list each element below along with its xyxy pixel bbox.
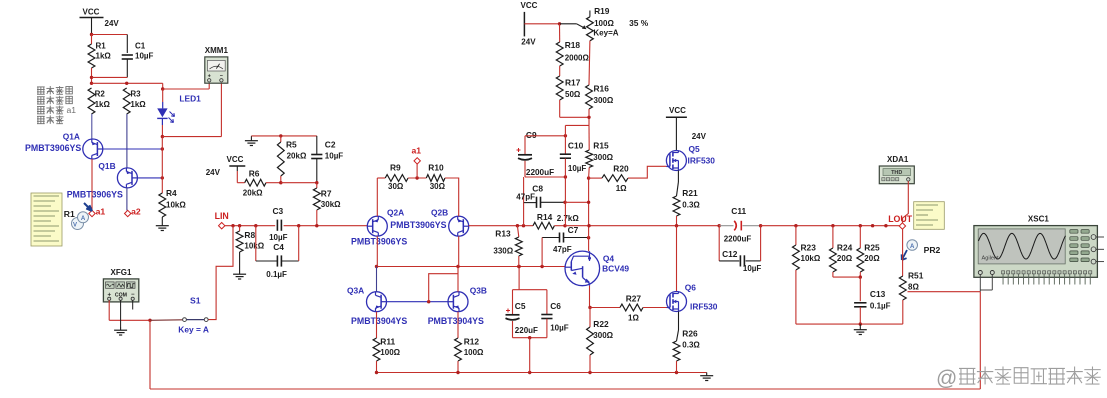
transistor Q3B PMBT3904YS	[448, 292, 468, 312]
probe PR2 indicator	[907, 240, 918, 251]
svg-text:24V: 24V	[521, 38, 536, 47]
wire Q2B base to feedback rail	[469, 225, 533, 227]
resistor R27 1Ω (gate stopper)	[590, 307, 621, 309]
wire XSC1 ground return column	[979, 292, 981, 389]
LED LED1	[162, 89, 164, 102]
svg-text:THD: THD	[891, 170, 902, 176]
svg-text:R19: R19	[594, 6, 610, 16]
wire Q6 source to R26	[678, 312, 680, 331]
wire XFG1 COM to ground	[120, 300, 122, 327]
svg-text:XDA1: XDA1	[887, 155, 909, 164]
svg-text:2200uF: 2200uF	[526, 168, 554, 177]
wire C5/C6 loop feed	[518, 267, 520, 290]
resistor R6 20kΩ (horizontal)	[237, 182, 244, 184]
svg-text:XSC1: XSC1	[1028, 214, 1049, 223]
svg-text:XFG1: XFG1	[111, 268, 132, 277]
wire R1 top lead	[91, 35, 93, 45]
svg-text:PMBT3904YS: PMBT3904YS	[428, 316, 484, 326]
svg-text:a2: a2	[131, 207, 141, 217]
wire Q4 emitter down	[589, 286, 591, 308]
svg-text:0.3Ω: 0.3Ω	[682, 340, 700, 349]
svg-text:10µF: 10µF	[269, 233, 288, 242]
svg-text:47pF: 47pF	[516, 193, 535, 202]
resistor R13 330Ω	[517, 226, 518, 237]
wire LED column drop	[162, 83, 164, 89]
wire XDA1 to LOUT	[903, 181, 909, 223]
svg-text:10µF: 10µF	[550, 324, 569, 333]
resistor R16 300Ω	[586, 85, 593, 109]
resistor R20 1Ω (gate stopper)	[589, 177, 602, 179]
resistor R12 100Ω	[457, 312, 459, 338]
resistor R21 0.3Ω	[673, 196, 680, 216]
wire C9 bottom node	[525, 176, 565, 178]
transistor Q4 BCV49 (darlington)	[565, 251, 600, 286]
wire LOUT down to R51	[902, 229, 904, 276]
svg-text:10µF: 10µF	[325, 152, 344, 161]
resistor R23 10kΩ	[795, 226, 797, 245]
svg-text:R26: R26	[682, 328, 698, 338]
svg-text:1kΩ: 1kΩ	[95, 100, 111, 109]
svg-text:R24: R24	[837, 243, 853, 253]
capacitor C2 10µF	[316, 136, 318, 154]
transistor Q2B PMBT3906YS	[449, 216, 469, 236]
svg-text:R51: R51	[908, 271, 924, 281]
svg-text:10kΩ: 10kΩ	[166, 201, 186, 210]
transistor Q2A PMBT3906YS	[367, 216, 387, 236]
resistor R1 1kΩ	[88, 44, 95, 68]
wire R10 to Q2B emitter	[445, 178, 459, 216]
svg-text:R21: R21	[682, 188, 698, 198]
wire Q1A base to bias column	[103, 148, 163, 150]
svg-text:LIN: LIN	[215, 211, 229, 221]
svg-text:2.7kΩ: 2.7kΩ	[557, 214, 580, 223]
svg-text:Q2A: Q2A	[387, 207, 404, 217]
svg-text:C12: C12	[722, 249, 738, 259]
wire VCC stem to R6	[236, 171, 238, 183]
svg-text:Q4: Q4	[603, 254, 615, 264]
svg-text:30kΩ: 30kΩ	[321, 200, 341, 209]
svg-text:IRF530: IRF530	[690, 302, 718, 312]
svg-text:Q1B: Q1B	[98, 161, 115, 171]
resistor R22 300Ω	[589, 308, 591, 328]
wire R1/C1 bottom link	[90, 76, 93, 79]
wire XFG1 + output	[108, 300, 110, 320]
wire R9-R10 mid node	[408, 177, 426, 179]
wire output rail	[565, 225, 719, 227]
svg-text:PMBT3906YS: PMBT3906YS	[25, 143, 81, 153]
svg-text:20kΩ: 20kΩ	[243, 188, 263, 197]
MOSFET Q6 IRF530	[667, 292, 687, 312]
wire Q2B collector down	[458, 236, 460, 266]
svg-text:Q3B: Q3B	[470, 285, 487, 295]
svg-text:R11: R11	[380, 337, 395, 347]
svg-text:10kΩ: 10kΩ	[244, 241, 264, 250]
svg-text:C6: C6	[550, 301, 561, 311]
svg-text:PMBT3906YS: PMBT3906YS	[390, 220, 446, 230]
svg-text:C11: C11	[731, 206, 746, 216]
svg-text:PMBT3906YS: PMBT3906YS	[67, 190, 123, 200]
svg-text:100Ω: 100Ω	[380, 348, 400, 357]
svg-text:R3: R3	[130, 90, 141, 99]
svg-text:VCC: VCC	[83, 8, 100, 17]
svg-text:C9: C9	[526, 130, 537, 140]
svg-text:R20: R20	[613, 163, 629, 173]
svg-text:Agilent: Agilent	[982, 256, 1000, 262]
svg-text:Key = A: Key = A	[178, 324, 209, 334]
svg-text:IRF530: IRF530	[688, 155, 716, 165]
wire Q1A collector to a1 probe	[91, 159, 93, 210]
wire Q3B collector up	[457, 267, 459, 292]
wire loop to rail	[529, 338, 531, 373]
svg-text:PMBT3906YS: PMBT3906YS	[351, 237, 407, 247]
svg-text:R13: R13	[495, 229, 511, 239]
svg-text:a1: a1	[412, 145, 422, 155]
probe PR2 arrow	[902, 250, 907, 260]
wire XSC1 channel pins	[979, 275, 981, 292]
resistor R3 1kΩ	[123, 88, 130, 114]
svg-text:a1: a1	[67, 105, 77, 115]
svg-text:330Ω: 330Ω	[493, 247, 513, 256]
wire XMM1 - terminal return	[162, 136, 221, 138]
svg-text:R2: R2	[95, 90, 106, 99]
svg-text:R1: R1	[64, 209, 75, 219]
wire XFG1 - stub	[132, 300, 134, 309]
svg-text:R18: R18	[565, 40, 581, 50]
svg-text:C7: C7	[568, 225, 579, 235]
svg-text:24V: 24V	[105, 19, 120, 28]
svg-text:XMM1: XMM1	[205, 46, 229, 55]
svg-text:24V: 24V	[692, 132, 707, 141]
svg-text:R4: R4	[166, 188, 177, 198]
wire node to XMM1 + terminal	[163, 88, 210, 90]
svg-text:R16: R16	[594, 84, 610, 94]
svg-text:VCC: VCC	[669, 106, 686, 115]
wire C8 node link	[565, 201, 589, 203]
svg-text:Q3A: Q3A	[347, 285, 364, 295]
resistor R15 300Ω	[588, 125, 590, 150]
svg-text:@: @	[936, 367, 957, 390]
svg-text:10kΩ: 10kΩ	[801, 254, 821, 263]
transistor Q1B PMBT3906YS	[117, 168, 137, 188]
svg-text:C4: C4	[273, 242, 284, 252]
svg-text:R25: R25	[864, 243, 880, 253]
capacitor C10 10µF	[564, 125, 566, 153]
svg-text:1kΩ: 1kΩ	[96, 52, 112, 61]
capacitor C5 220uF	[512, 290, 514, 314]
svg-text:Key=A: Key=A	[593, 29, 618, 38]
resistor R24 20Ω	[832, 226, 834, 248]
resistor R25 20Ω	[859, 226, 861, 248]
wire C3 right to Q2A base	[284, 225, 368, 227]
capacitor C13 0.1µF	[859, 277, 861, 301]
wire source return bottom rail	[149, 320, 151, 389]
svg-text:R7: R7	[321, 189, 332, 199]
svg-text:100Ω: 100Ω	[594, 19, 614, 28]
svg-text:2000Ω: 2000Ω	[565, 54, 590, 63]
ground below R8	[239, 252, 241, 271]
node LOUT diamond	[899, 223, 905, 229]
wire Q6 drain column	[676, 226, 678, 292]
wire C5/C6 loop top	[513, 289, 547, 291]
svg-text:BCV49: BCV49	[602, 264, 629, 274]
wire VCC to Q5 drain	[675, 122, 677, 151]
wire LED node down to Q1 bases/R4	[161, 137, 163, 178]
wire Q4 collector column	[588, 178, 590, 251]
capacitor C7 47pF	[542, 237, 559, 239]
transistor Q1A PMBT3906YS	[83, 139, 103, 159]
svg-text:C2: C2	[325, 140, 336, 150]
probe PR2 measurement box (yellow)	[914, 202, 945, 230]
node a1 (diff pair)	[416, 164, 418, 178]
svg-text:10µF: 10µF	[568, 164, 587, 173]
wire emitter degeneration rail	[377, 372, 707, 374]
svg-text:R12: R12	[464, 337, 480, 347]
node junction at VCC/R1/C1 top	[90, 33, 93, 36]
capacitor C11 2200uF (series output)	[719, 225, 733, 227]
capacitor C3 10µF (series input)	[276, 220, 278, 231]
svg-text:30Ω: 30Ω	[388, 182, 404, 191]
resistor R2 1kΩ	[88, 88, 95, 114]
wire R19 bottom to R16	[588, 41, 591, 85]
svg-text:V: V	[73, 223, 77, 229]
svg-text:2200uF: 2200uF	[724, 235, 752, 244]
resistor R4 10kΩ	[161, 178, 163, 193]
wire Q3A collector up	[376, 267, 378, 292]
svg-text:Q5: Q5	[689, 144, 701, 154]
svg-text:35 %: 35 %	[629, 18, 649, 28]
svg-text:1kΩ: 1kΩ	[130, 100, 146, 109]
wire R1 bottom lead	[91, 68, 93, 83]
wire C9 top tap	[525, 135, 565, 137]
wire Q1B base to bias column	[137, 177, 162, 179]
wire Q3B diode connection	[429, 274, 458, 302]
ground below R4	[161, 217, 163, 223]
wire LED cathode down	[161, 125, 163, 137]
resistor R26 0.3Ω	[673, 341, 680, 361]
svg-text:PMBT3904YS: PMBT3904YS	[351, 316, 407, 326]
wire LIN to rail	[225, 225, 275, 227]
svg-text:R5: R5	[286, 140, 297, 150]
svg-text:0.1µF: 0.1µF	[870, 301, 891, 310]
wire Q3 base tie	[387, 301, 449, 303]
svg-text:20kΩ: 20kΩ	[287, 152, 307, 161]
wire R51 to oscilloscope	[908, 291, 981, 293]
wire R14 right to node	[554, 225, 565, 227]
svg-text:300Ω: 300Ω	[593, 331, 613, 340]
svg-text:S1: S1	[190, 296, 201, 306]
svg-text:1Ω: 1Ω	[628, 313, 639, 322]
wire Q1B collector to a2	[126, 187, 128, 210]
wire VCC top node to C1	[92, 34, 128, 36]
resistor R18 2000Ω	[559, 24, 561, 42]
svg-text:1Ω: 1Ω	[616, 184, 627, 193]
wire C8 left leg to rail	[523, 203, 525, 226]
ground at output stage rail	[706, 373, 708, 376]
wire ground to R5/C2 top	[251, 135, 316, 137]
node a1 (left)	[89, 210, 95, 216]
probe PR1 arrow	[84, 203, 92, 211]
wire Q2A collector down	[376, 236, 378, 266]
wire Q2A emitter up to R9	[376, 178, 378, 216]
resistor R7 30kΩ	[316, 183, 318, 188]
svg-text:A: A	[910, 244, 915, 250]
potentiometer R19 100Ω Key=A	[589, 11, 591, 17]
node a2	[125, 210, 131, 216]
svg-text:VCC: VCC	[227, 155, 244, 164]
wire R15 link	[565, 124, 589, 126]
wire C10 column to rail	[564, 177, 566, 226]
wire VCC to R18/R19	[524, 23, 559, 25]
svg-text:100Ω: 100Ω	[464, 348, 484, 357]
ground at R5/C2 top	[250, 138, 252, 141]
svg-text:Q1A: Q1A	[63, 132, 80, 142]
svg-text:R15: R15	[593, 141, 609, 151]
svg-text:R23: R23	[801, 243, 817, 253]
wire R5/C2 bottom node	[279, 181, 282, 184]
svg-text:24V: 24V	[206, 168, 221, 177]
resistor R10 30Ω	[426, 175, 445, 182]
probe PR1 V/A indicator	[72, 218, 84, 230]
capacitor C4 0.1µF parallel loop	[255, 226, 257, 261]
svg-text:R27: R27	[626, 293, 642, 303]
potentiometer R19 wiper arrow	[577, 24, 585, 28]
svg-text:50Ω: 50Ω	[565, 90, 581, 99]
wire supply node horizontal to LED column	[90, 82, 93, 85]
svg-text:R9: R9	[390, 163, 401, 173]
capacitor C12 10µF parallel loop	[718, 226, 720, 261]
wire rail to load network	[761, 225, 900, 227]
svg-text:C10: C10	[568, 140, 584, 150]
svg-text:R6: R6	[249, 169, 260, 179]
svg-text:LED1: LED1	[179, 93, 201, 103]
resistor R9 30Ω	[377, 177, 385, 179]
switch S1 Key=A	[150, 319, 183, 322]
svg-text:R17: R17	[565, 78, 581, 88]
svg-text:VCC: VCC	[521, 1, 538, 10]
svg-text:0.3Ω: 0.3Ω	[682, 200, 700, 209]
svg-text:R8: R8	[244, 230, 255, 240]
node LIN diamond	[219, 223, 225, 229]
svg-text:C1: C1	[135, 42, 146, 51]
svg-text:C13: C13	[870, 289, 886, 299]
svg-text:300Ω: 300Ω	[593, 153, 613, 162]
oscilloscope XSC1 terminal strip	[1002, 271, 1005, 274]
resistor R8 10kΩ	[239, 226, 241, 231]
svg-text:R1: R1	[96, 42, 107, 51]
wire LIN drop to switch S1	[208, 226, 233, 320]
svg-text:8Ω: 8Ω	[908, 282, 919, 291]
svg-text:20Ω: 20Ω	[837, 254, 853, 263]
wire C7 left branch to Q4 base	[541, 238, 543, 267]
wire Q5 source to R21	[677, 171, 679, 183]
ground at load network	[859, 327, 861, 330]
wire R24/R25 bottom tie	[833, 276, 860, 278]
svg-text:LOUT: LOUT	[888, 214, 913, 224]
svg-text:20Ω: 20Ω	[864, 254, 880, 263]
resistor R11 100Ω	[376, 312, 378, 338]
svg-text:220uF: 220uF	[515, 326, 538, 335]
capacitor C1 10µF	[126, 35, 128, 54]
wire diff collectors line to Q4 base	[377, 266, 566, 268]
svg-text:0.1µF: 0.1µF	[266, 270, 287, 279]
resistor R14 2.7kΩ (series feedback)	[533, 222, 554, 229]
MOSFET Q5 IRF530	[666, 151, 686, 171]
svg-text:47pF: 47pF	[553, 245, 572, 254]
probe PR1 measurement box (yellow)	[31, 193, 62, 246]
capacitor C6 10µF	[546, 290, 548, 315]
svg-text:C3: C3	[273, 206, 284, 216]
wire R2 bottom to Q1A	[91, 114, 93, 139]
annotation chinese note text (4 lines)	[37, 86, 45, 88]
svg-text:C5: C5	[515, 301, 526, 311]
svg-text:R22: R22	[593, 319, 609, 329]
svg-text:30Ω: 30Ω	[430, 182, 446, 191]
svg-text:R14: R14	[537, 212, 553, 222]
svg-text:300Ω: 300Ω	[594, 96, 614, 105]
svg-text:Q6: Q6	[685, 282, 697, 292]
wire R3 bottom to Q1B top	[126, 114, 128, 169]
svg-text:10µF: 10µF	[135, 52, 154, 61]
wire R17 bottom to R16 column	[560, 116, 589, 118]
resistor R5 20kΩ	[280, 136, 282, 142]
svg-text:Q2B: Q2B	[431, 207, 448, 217]
svg-text:R10: R10	[428, 163, 444, 173]
svg-text:PR2: PR2	[924, 245, 941, 255]
capacitor C8 47pF	[523, 177, 525, 203]
resistor R51 8Ω	[899, 276, 906, 300]
svg-text:A: A	[81, 216, 86, 222]
svg-text:10µF: 10µF	[743, 264, 762, 273]
svg-text:a1: a1	[96, 207, 106, 217]
wire C5/C6 loop bottom	[513, 337, 547, 339]
resistor R17 50Ω	[559, 66, 561, 76]
wire load bottom tie	[796, 323, 903, 325]
transistor Q3A PMBT3904YS	[367, 292, 387, 312]
capacitor C9 2200uF	[524, 136, 526, 155]
